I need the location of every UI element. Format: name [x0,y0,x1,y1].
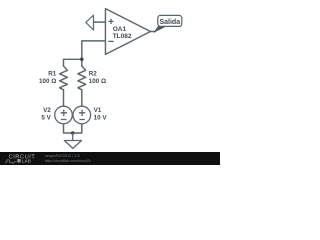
source V1 [73,106,91,124]
svg-text:LAB: LAB [22,158,31,163]
wire [64,124,82,133]
ground [64,133,81,148]
svg-text:100 Ω: 100 Ω [39,78,56,85]
svg-text:5 V: 5 V [41,115,51,122]
svg-text:V1: V1 [94,107,102,114]
wire [81,90,83,107]
wire [151,31,156,33]
label V1 10 V [94,107,108,121]
junction [71,131,75,135]
svg-text:10 V: 10 V [94,115,108,122]
wire [82,41,106,66]
label R2 100 Ω [89,71,106,85]
svg-text:Salida: Salida [159,19,180,26]
junction [80,58,84,62]
wire [63,90,65,107]
wire [64,59,82,66]
resistor R2 [78,66,86,90]
svg-text:R2: R2 [89,71,98,78]
svg-text:V2: V2 [43,107,51,114]
label R1 100 Ω [39,71,57,85]
input flag (+ input port) [86,15,94,30]
svg-text:OA1: OA1 [113,26,127,33]
node Salida (output flag) [155,15,182,32]
wire [94,21,106,23]
svg-text:TL082: TL082 [113,33,132,40]
source V2 [55,106,73,124]
op-amp OA1 TL082 [105,9,150,55]
svg-text:100 Ω: 100 Ω [89,78,106,85]
resistor R1 [60,66,68,90]
svg-text:R1: R1 [48,71,57,78]
label V2 5 V [41,107,51,121]
